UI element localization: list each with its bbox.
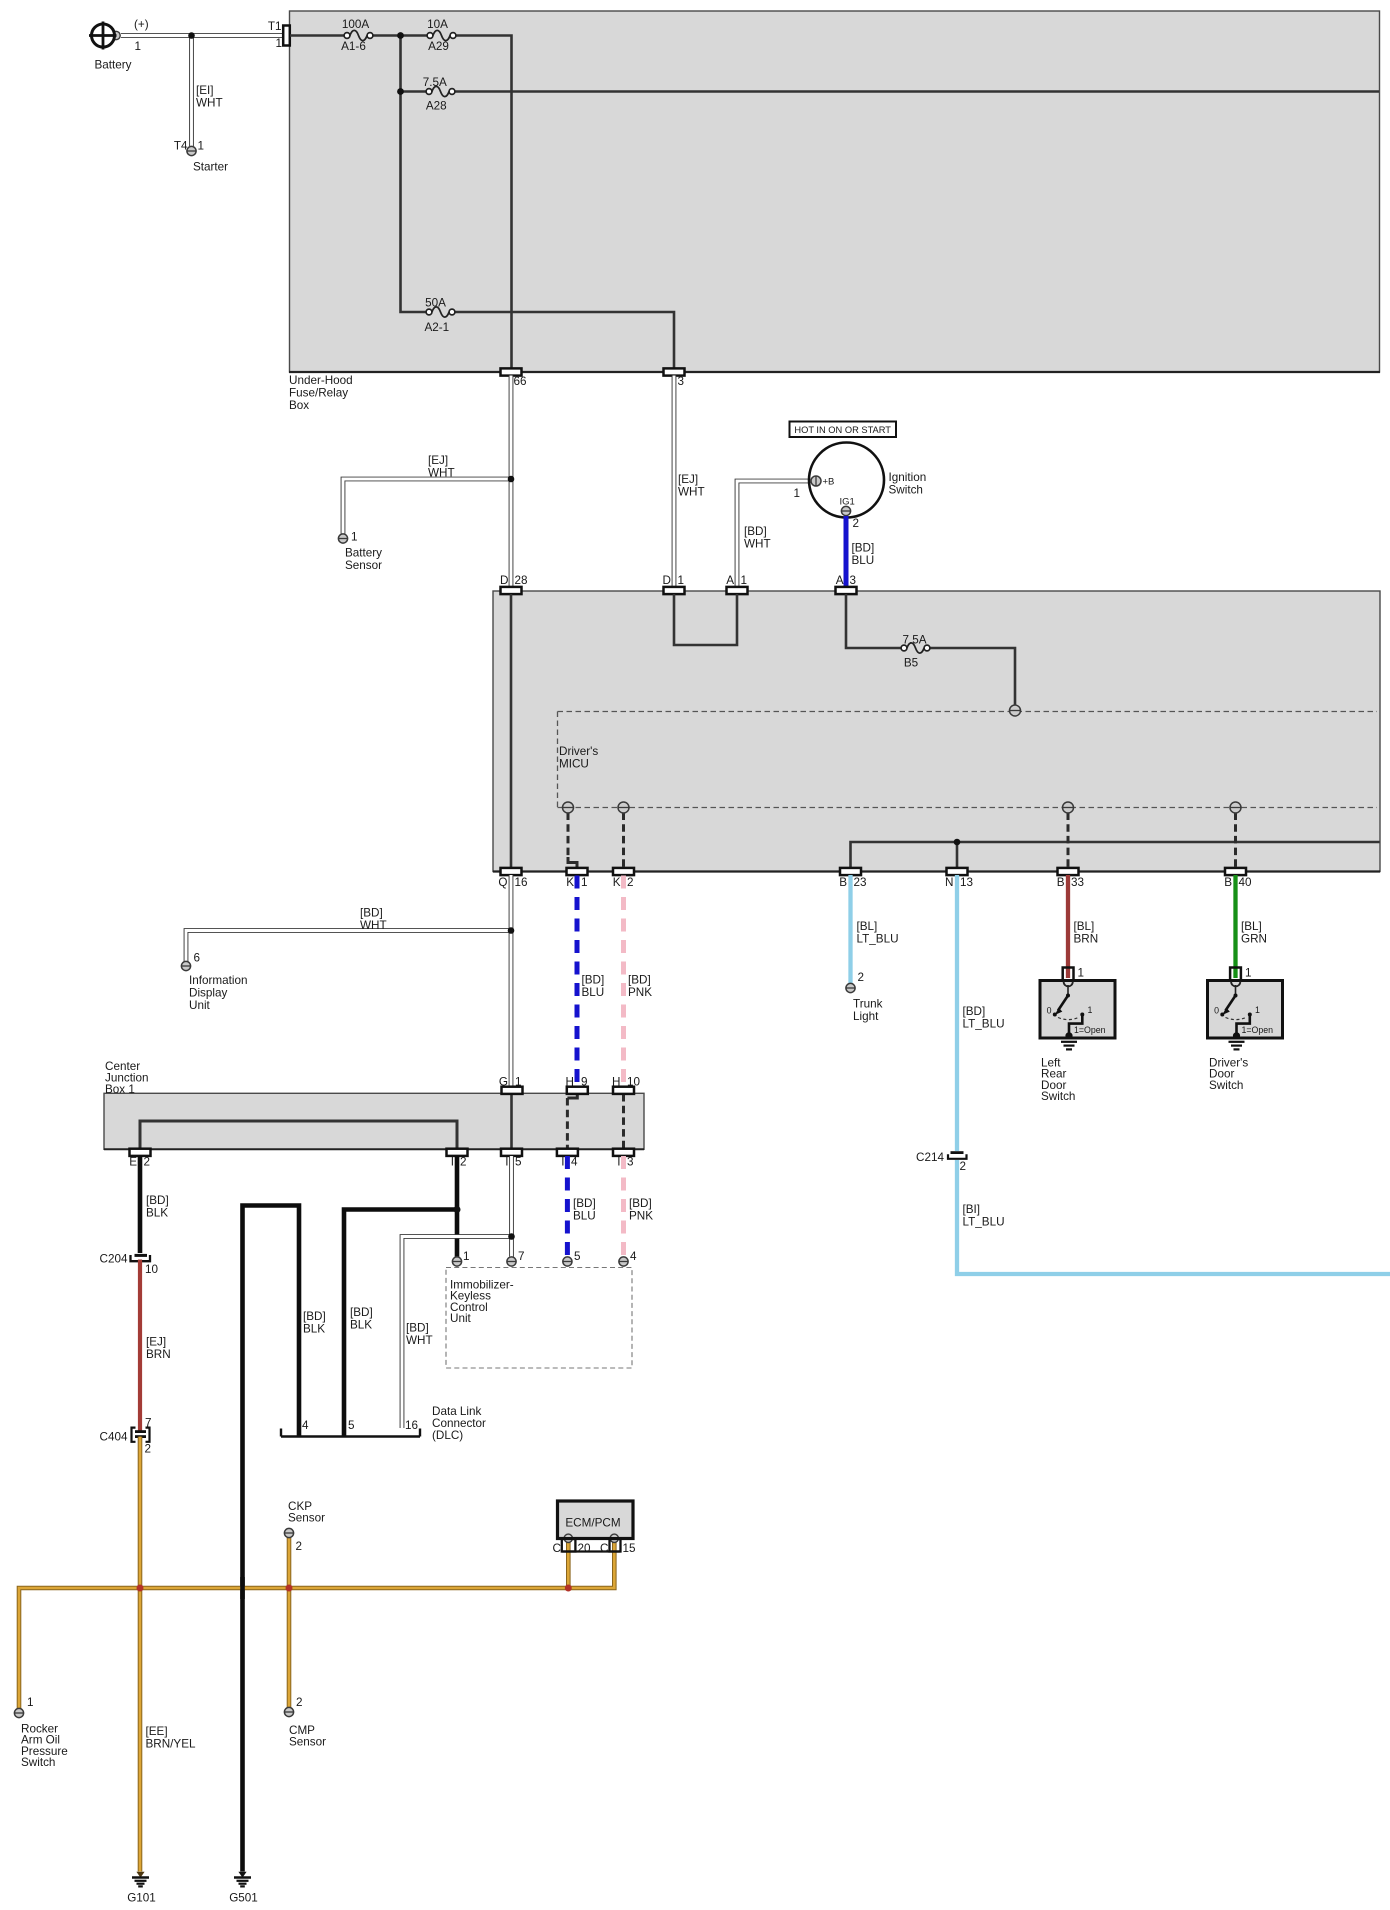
wire DLC pin 4 to G501 BLK [243,1206,300,1872]
label [EJ] WHT battery sensor [428,454,455,480]
left rear door switch connector pin 1 [1063,967,1084,981]
data link connector DLC [281,1405,486,1442]
wire I4 to immobilizer 5 [BD] BLU [567,1156,595,1257]
label [BD] WHT A1 [744,525,771,551]
fuse 7.5A A28 [423,76,455,113]
svg-text:G501: G501 [229,1892,258,1905]
svg-text:1: 1 [581,876,588,889]
svg-text:[EJ]: [EJ] [428,454,448,467]
svg-text:[BD]: [BD] [963,1005,986,1018]
svg-text:[BD]: [BD] [406,1322,429,1335]
pin K1 [566,868,587,889]
ECM/PCM pin C20 [553,1539,591,1555]
MICU dashed wire B33 [1067,813,1070,869]
svg-text:1: 1 [351,531,358,544]
label driver's door switch [1209,1057,1248,1092]
pin D1 [663,574,685,594]
pin I2 [447,1149,468,1169]
box label Under-Hood Fuse/Relay Box [289,374,353,412]
wire branch to battery sensor [343,479,512,534]
svg-text:Q: Q [498,876,507,889]
wire K1 to H9 [BD] BLU [577,876,604,1087]
svg-text:50A: 50A [425,297,446,310]
svg-text:1=Open: 1=Open [1242,1025,1274,1035]
svg-text:Switch: Switch [1209,1079,1243,1092]
wire B23 to trunk light [BL] LT_BLU [851,875,899,983]
label left rear door switch [1041,1057,1075,1104]
svg-text:Box: Box [289,399,309,412]
svg-text:WHT: WHT [196,97,223,110]
wire branch to DLC pin 5 BLK [344,1210,457,1437]
svg-text:Ignition: Ignition [889,471,927,484]
svg-text:[BD]: [BD] [303,1310,326,1323]
MICU terminal K2 [618,802,629,813]
svg-text:[BD]: [BD] [628,974,651,987]
pin N13 [945,868,973,889]
ECM/PCM pin C15 [562,1539,636,1555]
immobilizer terminal 4 [619,1250,637,1266]
wire N13 internal [956,842,959,868]
driver's door switch ground [1229,1042,1245,1050]
svg-text:BRN: BRN [1074,933,1099,946]
pin A3 [836,574,857,594]
svg-text:A28: A28 [426,100,447,113]
junction rocker/C404 wire [137,1585,144,1592]
svg-text:[BL]: [BL] [1241,920,1262,933]
CMP sensor terminal 2 [284,1696,326,1749]
svg-text:I: I [505,1156,508,1169]
svg-text:A29: A29 [428,40,449,53]
pin B40 [1224,868,1252,889]
svg-text:MICU: MICU [559,758,589,771]
junction ECM C20 wire [565,1585,572,1592]
svg-text:G: G [499,1076,508,1089]
svg-text:[BD]: [BD] [573,1197,596,1210]
svg-text:1: 1 [1078,967,1085,980]
svg-text:C: C [600,1542,608,1555]
MICU dashed wire K1 [568,813,577,870]
Under-Hood Fuse/Relay Box [289,11,1380,372]
ignition switch [793,443,926,531]
svg-text:H: H [612,1076,620,1089]
svg-text:C214: C214 [916,1151,944,1164]
label Driver's MICU [559,745,598,771]
svg-text:[EI]: [EI] [196,84,214,97]
svg-text:Fuse/Relay: Fuse/Relay [289,387,348,400]
svg-text:28: 28 [515,574,528,587]
ground G501 [229,1872,258,1905]
svg-text:Starter: Starter [193,161,228,174]
pin B23 [839,868,866,889]
driver's door switch connector pin 1 [1230,967,1251,981]
fuse 7.5A B5 [901,634,930,670]
svg-text:LT_BLU: LT_BLU [963,1018,1005,1031]
wire A1-6 to A29 [370,34,430,37]
svg-text:C: C [553,1542,561,1555]
svg-text:B: B [1224,876,1232,889]
trunk light terminal 2 [846,971,883,1023]
svg-text:1: 1 [1245,967,1252,980]
svg-text:40: 40 [1239,876,1253,889]
svg-text:I: I [617,1156,620,1169]
label [EI] WHT [196,84,223,110]
pin I3 [613,1149,634,1169]
svg-text:Box 1: Box 1 [105,1083,135,1096]
wire Q16 to G1 [509,875,514,1087]
svg-text:1: 1 [515,1076,522,1089]
svg-text:E: E [129,1156,137,1169]
HOT IN ON OR START tag [790,422,897,438]
wire junction to starter [189,36,194,147]
MICU internal wire A3 to fuse B5 [846,594,904,648]
wire CKP to CMP [287,1538,292,1708]
svg-text:B: B [1057,876,1065,889]
MICU dashed wire K2 [622,813,625,869]
pin 3 [664,368,685,388]
svg-text:G101: G101 [127,1892,156,1905]
starter terminal T4 [174,140,228,174]
svg-text:A1-6: A1-6 [341,40,366,53]
svg-text:Sensor: Sensor [289,1736,326,1749]
svg-text:1: 1 [1088,1005,1093,1015]
pin T1 [268,20,290,50]
pin A1 [726,574,747,594]
junction battery wire [188,32,195,39]
label [BD] BLK DLC4 [303,1310,326,1336]
pin Q16 [498,868,527,889]
svg-text:Information: Information [189,974,247,987]
svg-text:7.5A: 7.5A [423,76,447,89]
pin E2 [129,1149,150,1169]
svg-text:I: I [451,1156,454,1169]
svg-text:4: 4 [630,1250,637,1263]
svg-text:Trunk: Trunk [853,998,883,1011]
svg-text:Display: Display [189,987,227,1000]
CKP sensor terminal 2 [284,1500,325,1553]
immobilizer terminal 7 [507,1250,525,1266]
svg-text:WHT: WHT [360,919,387,932]
fuse 50A A2-1 [424,297,454,335]
svg-text:BRN/YEL: BRN/YEL [146,1738,197,1751]
svg-text:[BL]: [BL] [857,920,878,933]
svg-text:66: 66 [514,375,527,388]
svg-text:2: 2 [145,1443,152,1456]
svg-text:PNK: PNK [629,1210,653,1223]
svg-text:B: B [839,876,847,889]
svg-text:H: H [566,1076,574,1089]
junction dot at A1-6 output [397,32,404,39]
left rear door switch [1040,981,1115,1040]
pin I4 [557,1149,578,1169]
wire A1 to ignition +B [737,481,810,587]
wire I5 to immobilizer 7 WHT [509,1156,514,1257]
MICU internal wire D28 to Q16 [510,594,513,868]
left rear door switch ground [1061,1042,1077,1050]
information display unit terminal 6 [181,952,247,1013]
svg-text:B5: B5 [904,657,919,670]
wire IG1 to A3 [BD] BLU [846,516,874,587]
svg-text:2: 2 [296,1540,303,1553]
wire 66 to D28 [509,376,514,588]
svg-text:Switch: Switch [1041,1090,1075,1103]
svg-text:C404: C404 [100,1431,128,1444]
CJB internal dashed H10 to I3 [622,1094,625,1149]
ground G101 [127,1872,156,1905]
Center Junction Box 1 [104,1093,644,1149]
svg-text:3: 3 [850,574,857,587]
svg-text:10A: 10A [427,18,448,31]
MICU terminal B5 out [1010,705,1021,716]
immobilizer terminal 1 [452,1250,469,1266]
wire A28 output to box right edge [453,90,1379,93]
svg-text:+B: +B [823,477,835,488]
svg-text:N: N [945,876,953,889]
connector C214 [916,1151,966,1173]
svg-text:Battery: Battery [345,547,382,560]
wire I3 to immobilizer 4 [BD] PNK [624,1156,654,1257]
svg-text:[BL]: [BL] [1074,920,1095,933]
immobilizer-keyless control unit [446,1268,632,1369]
wire C214 to right edge [BI] LT_BLU [957,1160,1390,1274]
svg-text:BLU: BLU [582,986,605,999]
svg-text:A2-1: A2-1 [424,321,449,334]
fuse 100A A1-6 [341,18,373,53]
svg-text:[EJ]: [EJ] [678,473,698,486]
svg-text:1: 1 [1255,1005,1260,1015]
wire C204 to C404 [EJ] BRN [140,1260,171,1432]
svg-text:LT_BLU: LT_BLU [857,933,899,946]
junction CKP/CMP wire [286,1585,293,1592]
svg-text:1=Open: 1=Open [1074,1025,1106,1035]
svg-text:[BD]: [BD] [744,525,767,538]
svg-text:BLU: BLU [852,554,875,567]
wire junction to A28 [401,90,430,93]
wire B33 to left rear door switch [BL] BRN [1068,875,1098,978]
svg-text:6: 6 [194,952,201,965]
svg-text:1: 1 [678,574,685,587]
Driver's MICU box [493,591,1380,872]
svg-text:10: 10 [627,1076,641,1089]
MICU internal horizontal wire B23/N13 [851,842,1380,868]
driver's door switch [1208,981,1283,1040]
Driver's MICU dashed internal box [558,712,1378,808]
MICU internal wire B5 to MICU terminal [927,648,1015,706]
MICU terminal K1 [563,802,574,813]
svg-text:7: 7 [518,1250,525,1263]
svg-text:[BD]: [BD] [852,542,875,555]
svg-text:(DLC): (DLC) [432,1429,463,1442]
svg-text:Sensor: Sensor [345,559,382,572]
svg-text:(+): (+) [134,18,149,31]
svg-text:LT_BLU: LT_BLU [963,1216,1005,1229]
svg-text:13: 13 [960,876,973,889]
svg-text:A: A [836,574,844,587]
svg-text:Switch: Switch [889,484,923,497]
svg-text:2: 2 [460,1156,467,1169]
svg-text:4: 4 [302,1419,309,1432]
svg-text:A: A [726,574,734,587]
label [BD] WHT DLC16 [406,1322,433,1348]
svg-text:7.5A: 7.5A [902,634,926,647]
svg-text:2: 2 [858,971,865,984]
wire A29 to pin 66 [453,36,512,373]
svg-text:[BI]: [BI] [963,1203,981,1216]
wire 3 to D1 [672,376,677,588]
svg-text:D: D [663,574,671,587]
svg-text:[BD]: [BD] [350,1306,373,1319]
CJB internal wire G1 to I5 [510,1094,513,1149]
CJB internal wire E2 to I2 [140,1121,457,1149]
svg-text:K: K [613,876,621,889]
label [BD] WHT info [360,907,387,933]
svg-text:D: D [500,574,508,587]
junction on D28 wire [508,476,515,483]
svg-text:4: 4 [571,1156,578,1169]
svg-text:T1: T1 [268,20,282,33]
svg-text:K: K [566,876,574,889]
wire segment G501 over crossing [240,1577,245,1599]
svg-text:Unit: Unit [450,1312,472,1325]
svg-text:[EE]: [EE] [146,1725,168,1738]
svg-text:BRN: BRN [146,1348,171,1361]
MICU dashed wire B40 [1234,813,1237,869]
svg-text:15: 15 [623,1542,637,1555]
svg-text:3: 3 [678,375,685,388]
svg-text:33: 33 [1071,876,1084,889]
svg-text:9: 9 [581,1076,588,1089]
label Center Junction Box 1 [105,1060,149,1096]
svg-text:BLK: BLK [303,1323,325,1336]
wire E2 to C204 [BD] BLK [140,1156,169,1253]
svg-text:1: 1 [741,574,748,587]
pin D28 [500,574,527,594]
svg-text:10: 10 [145,1263,159,1276]
svg-text:I: I [561,1156,564,1169]
orange trunk wire rocker to ECM C15 [EE] [19,1542,614,1709]
ECM/PCM [558,1501,634,1543]
wire C404 to G101 [EE] BRN/YEL [140,1437,196,1872]
wire K2 to H10 [BD] PNK [624,876,653,1087]
svg-text:5: 5 [515,1156,522,1169]
CJB internal dashed H9 to I4 [567,1094,577,1149]
svg-text:16: 16 [405,1419,418,1432]
pin H9 [566,1076,588,1094]
pin K2 [613,868,634,889]
svg-text:1: 1 [275,37,282,50]
svg-text:0: 0 [1047,1006,1052,1016]
svg-text:3: 3 [627,1156,634,1169]
pin H10 [612,1076,640,1094]
svg-text:1: 1 [793,487,800,500]
junction dot at A28 branch [397,88,404,95]
junction N13 internal [954,839,961,846]
connector C204 [100,1253,159,1277]
svg-text:5: 5 [348,1419,355,1432]
MICU terminal B40 [1230,802,1241,813]
svg-text:Battery: Battery [95,59,132,72]
wire N13 to C214 [BD] LT_BLU [957,875,1005,1151]
svg-text:PNK: PNK [628,986,652,999]
svg-text:[EJ]: [EJ] [146,1336,166,1349]
svg-text:HOT IN ON OR START: HOT IN ON OR START [794,425,891,435]
svg-text:C204: C204 [100,1253,128,1266]
svg-text:BLK: BLK [350,1319,372,1332]
wire 50A to pin 3 [453,312,674,372]
wire T1 to fuse A1-6 [290,34,347,37]
battery sensor terminal [338,531,382,573]
svg-text:ECM/PCM: ECM/PCM [565,1517,620,1530]
svg-text:16: 16 [515,876,528,889]
wire B40 to driver's door switch [BL] GRN [1236,875,1267,978]
svg-text:2: 2 [853,517,860,530]
pin 66 [501,368,527,388]
junction on I5 wire [508,1233,515,1240]
rocker arm oil pressure switch terminal 1 [14,1696,67,1769]
svg-text:23: 23 [854,876,867,889]
svg-text:0: 0 [1214,1006,1219,1016]
svg-text:GRN: GRN [1241,933,1267,946]
junction on I2 wire [454,1206,461,1213]
svg-text:Sensor: Sensor [288,1512,325,1525]
svg-text:T4: T4 [174,140,188,153]
svg-text:[BD]: [BD] [582,974,605,987]
wire junction down to 50A [401,36,430,313]
junction on Q16 wire [508,927,515,934]
svg-text:WHT: WHT [678,486,705,499]
svg-text:2: 2 [296,1696,303,1709]
svg-text:1: 1 [27,1696,34,1709]
pin I5 [501,1149,522,1169]
pin G1 [499,1076,523,1094]
MICU terminal B33 [1063,802,1074,813]
svg-text:2: 2 [627,876,634,889]
svg-text:1: 1 [135,40,142,53]
svg-text:WHT: WHT [744,538,771,551]
svg-text:1: 1 [198,140,205,153]
svg-text:BLU: BLU [573,1210,596,1223]
pin B33 [1057,868,1084,889]
svg-text:WHT: WHT [428,467,455,480]
svg-text:[BD]: [BD] [360,907,383,920]
label [EJ] WHT D1 [678,473,705,499]
wire battery to T1 [121,33,283,38]
label [BD] BLK DLC5 [350,1306,373,1332]
wire I2 to immobilizer 1 BLK [455,1156,460,1257]
svg-text:Under-Hood: Under-Hood [289,374,353,387]
svg-text:Light: Light [853,1010,879,1023]
connector C404 [100,1417,152,1456]
svg-text:100A: 100A [342,18,370,31]
svg-text:5: 5 [574,1250,581,1263]
wire branch to information display unit [186,931,512,962]
svg-text:1: 1 [463,1250,470,1263]
svg-text:Switch: Switch [21,1756,55,1769]
wire ECM C20 down [566,1542,571,1588]
battery [89,18,149,72]
svg-text:Unit: Unit [189,999,211,1012]
wire branch to DLC pin 16 WHT [402,1237,512,1429]
svg-text:20: 20 [578,1542,592,1555]
svg-text:Driver's: Driver's [559,745,598,758]
MICU internal wire D1 to A1 [674,594,737,645]
svg-text:BLK: BLK [146,1207,168,1220]
svg-text:[BD]: [BD] [146,1194,169,1207]
svg-text:2: 2 [144,1156,151,1169]
fuse 10A A29 [427,18,456,53]
svg-text:[BD]: [BD] [629,1197,652,1210]
svg-text:WHT: WHT [406,1334,433,1347]
immobilizer terminal 5 [563,1250,581,1266]
